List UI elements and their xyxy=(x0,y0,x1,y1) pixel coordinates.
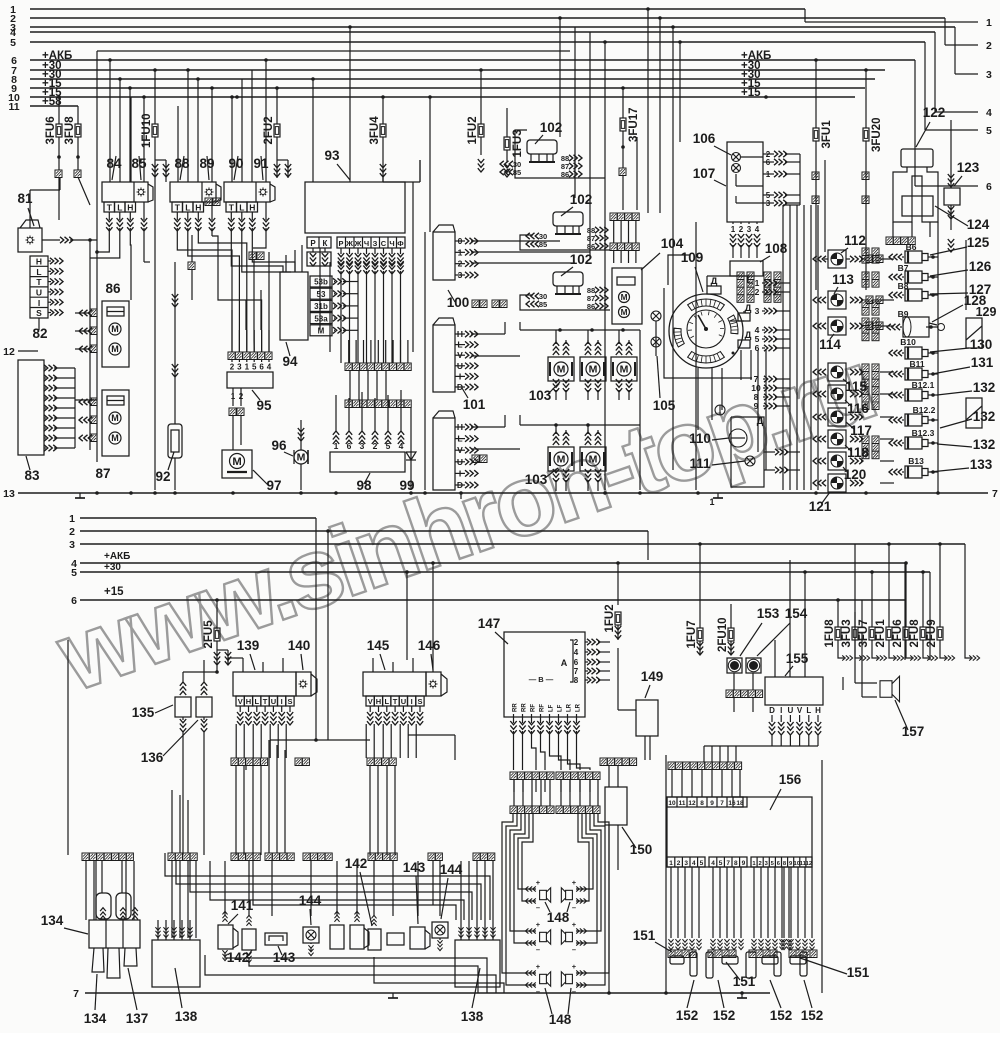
connector below 3FU17 xyxy=(619,168,626,176)
connector row below 122 xyxy=(886,237,893,245)
switch B13 xyxy=(905,466,922,478)
speaker 148 right xyxy=(561,888,572,902)
svg-text:53: 53 xyxy=(317,290,326,299)
fan motor 103 xyxy=(580,447,606,471)
svg-text:I: I xyxy=(281,697,283,706)
fuse 3FU8 xyxy=(75,124,81,137)
svg-text:152: 152 xyxy=(676,1008,699,1023)
connector pairs x476 group xyxy=(472,300,479,308)
svg-text:2FU5: 2FU5 xyxy=(203,620,215,649)
wires 123 xyxy=(950,120,952,188)
svg-text:6: 6 xyxy=(986,181,992,193)
wire trunk x97 xyxy=(96,51,98,462)
relay 142a xyxy=(242,929,256,950)
svg-text:H: H xyxy=(246,697,251,706)
fuse 2FU2 xyxy=(274,124,280,137)
connector strip above 95 xyxy=(228,352,235,360)
wires gauge to relays xyxy=(789,282,791,284)
electronic unit 93 box xyxy=(305,182,405,233)
connector block 83 xyxy=(18,360,44,455)
svg-text:–: – xyxy=(536,987,540,996)
ignition plug prongs above 134 xyxy=(96,893,111,919)
wires 93 strip down to middle strip xyxy=(340,271,342,363)
svg-text:96: 96 xyxy=(271,438,287,453)
svg-text:2: 2 xyxy=(230,363,235,372)
svg-text:S: S xyxy=(417,697,422,706)
svg-text:+15: +15 xyxy=(741,87,761,99)
wire +AKB feeder y51 xyxy=(97,50,570,52)
wire drop x590 xyxy=(589,32,591,247)
switch B8 xyxy=(905,289,922,301)
svg-text:4: 4 xyxy=(711,860,715,867)
ground bottom xyxy=(737,993,747,998)
bus wire 2 top xyxy=(30,17,945,19)
svg-text:M: M xyxy=(111,324,119,334)
svg-text:125: 125 xyxy=(967,235,990,250)
wires above 98 xyxy=(335,404,337,428)
wires below 145 xyxy=(365,724,367,758)
svg-text:95: 95 xyxy=(256,398,272,413)
svg-text:105: 105 xyxy=(653,398,676,413)
relay 117 xyxy=(828,408,846,426)
svg-text:1: 1 xyxy=(752,861,756,867)
svg-text:L: L xyxy=(36,267,41,277)
dots bottom xyxy=(664,991,668,995)
fuse 1FU7 xyxy=(697,628,703,641)
svg-text:T: T xyxy=(263,697,268,706)
svg-text:–: – xyxy=(572,987,576,996)
verticals below strips xyxy=(757,350,759,452)
svg-text:2FU1: 2FU1 xyxy=(875,619,887,648)
gauge wires xyxy=(706,276,708,286)
watermark www.sinhron-top.ru xyxy=(44,329,886,713)
relay 116 xyxy=(828,385,846,403)
svg-text:130: 130 xyxy=(970,337,993,352)
connector strips right of relays xyxy=(862,364,869,372)
svg-text:3FU6: 3FU6 xyxy=(45,116,57,144)
speaker 148 right xyxy=(561,972,572,986)
svg-text:+: + xyxy=(572,962,577,971)
bottom bus 4 AKB xyxy=(80,562,905,564)
gauge tick arc right xyxy=(728,315,738,334)
svg-text:3FU8: 3FU8 xyxy=(64,116,76,145)
svg-text:152: 152 xyxy=(770,1008,793,1023)
gauge tick arc bottom xyxy=(688,352,725,364)
svg-text:Ч: Ч xyxy=(389,239,394,248)
lamp in 106 b xyxy=(732,164,741,173)
svg-text:2: 2 xyxy=(69,526,75,538)
svg-text:B6: B6 xyxy=(906,242,917,252)
svg-text:+: + xyxy=(536,878,541,887)
svg-text:M: M xyxy=(111,413,119,423)
svg-text:L: L xyxy=(239,203,244,213)
svg-text:H: H xyxy=(36,257,42,267)
trunk x460 bottom xyxy=(460,493,462,499)
svg-text:V: V xyxy=(368,697,373,706)
svg-text:+: + xyxy=(572,878,577,887)
connector strip below 139 xyxy=(231,758,238,766)
connector 82 xyxy=(30,256,48,318)
svg-text:1FU2: 1FU2 xyxy=(604,604,616,632)
junction dots on buses xyxy=(153,68,157,72)
svg-text:С: С xyxy=(381,239,387,248)
main trunk x938 xyxy=(937,222,939,493)
svg-text:134: 134 xyxy=(84,1011,107,1026)
block 83 pin wires xyxy=(44,365,57,371)
fuse 1FU2 top xyxy=(478,124,484,137)
relay 114 xyxy=(828,317,846,335)
gauge tick arc left xyxy=(674,328,684,347)
flasher 137b xyxy=(330,925,344,949)
wires below strip 139 xyxy=(235,766,237,855)
relay 90 pin wires xyxy=(230,212,232,220)
svg-text:–: – xyxy=(572,903,576,912)
svg-text:B13: B13 xyxy=(908,456,924,466)
lamp in 106 xyxy=(732,153,741,162)
bottom bus line 2nd section xyxy=(85,992,770,994)
svg-text:99: 99 xyxy=(399,478,414,493)
wire drop x605 xyxy=(604,42,606,490)
svg-text:31b: 31b xyxy=(314,302,328,311)
left connector strips of B switches xyxy=(862,248,869,256)
connector 108 box xyxy=(730,261,763,276)
svg-text:82: 82 xyxy=(32,326,47,341)
wire x965 down xyxy=(964,560,966,652)
ignition coil 102 xyxy=(553,272,583,286)
lamp 111 xyxy=(745,456,755,466)
relay 120 xyxy=(828,452,846,470)
svg-text:1FU10: 1FU10 xyxy=(141,113,153,148)
svg-text:+: + xyxy=(572,920,577,929)
svg-text:L: L xyxy=(806,706,811,715)
wires below 147 staircase xyxy=(513,731,515,770)
motor unit 86 box xyxy=(102,301,129,367)
svg-text:4: 4 xyxy=(755,225,760,234)
power bus +30 y79 xyxy=(30,78,875,80)
svg-text:1FU2: 1FU2 xyxy=(467,116,479,144)
relay 90/91 box xyxy=(224,182,270,202)
wires left of 86/87 xyxy=(89,305,91,450)
svg-text:152: 152 xyxy=(801,1008,824,1023)
fuse 2FU8 xyxy=(920,627,926,640)
resistor 129a xyxy=(966,318,982,348)
relay 121 xyxy=(828,474,846,492)
svg-text:H: H xyxy=(249,203,255,213)
svg-text:154: 154 xyxy=(785,606,808,621)
unit 145 letter pins xyxy=(366,696,374,706)
fan motor 103 xyxy=(580,357,606,381)
wires 155 down to 156 xyxy=(771,734,773,746)
fan motor 103 xyxy=(548,357,574,381)
svg-text:H: H xyxy=(376,697,381,706)
svg-text:147: 147 xyxy=(478,616,501,631)
wires from 93 to buses xyxy=(312,79,314,182)
fuse 2FU5 xyxy=(214,628,220,641)
svg-text:B12.1: B12.1 xyxy=(912,380,935,390)
svg-text:10: 10 xyxy=(668,800,676,807)
wires below 1FU10 xyxy=(155,159,166,161)
svg-text:142: 142 xyxy=(345,856,368,871)
svg-text:L: L xyxy=(385,697,390,706)
box around 110/111 xyxy=(731,417,764,487)
instrument cluster 109 xyxy=(669,294,743,368)
fuse 3FU4 xyxy=(380,124,386,137)
relay 112 xyxy=(828,250,846,268)
speaker 148 right xyxy=(561,930,572,944)
connector rows bottom left xyxy=(82,853,89,861)
svg-text:146: 146 xyxy=(418,638,441,653)
svg-text:152: 152 xyxy=(713,1008,736,1023)
svg-text:LR: LR xyxy=(567,703,573,712)
svg-text:–: – xyxy=(536,903,540,912)
switch B6 xyxy=(905,251,922,263)
svg-text:7: 7 xyxy=(992,488,998,500)
motor unit 97 xyxy=(222,450,252,478)
wires 110/111 right xyxy=(764,451,775,453)
unit 145 top wires xyxy=(372,658,374,672)
svg-text:2FU2: 2FU2 xyxy=(263,116,275,144)
wires from 100 xyxy=(471,240,560,242)
svg-text:M: M xyxy=(621,308,628,317)
feeder wires row1 xyxy=(520,329,640,331)
svg-text:3FU17: 3FU17 xyxy=(628,107,640,142)
svg-text:113: 113 xyxy=(832,272,854,287)
svg-text:138: 138 xyxy=(461,1009,484,1024)
power bus +15 y88 xyxy=(30,87,865,89)
fuse 1FU3 xyxy=(504,137,510,150)
svg-text:151: 151 xyxy=(633,928,656,943)
svg-text:Ч: Ч xyxy=(364,239,369,248)
unit 156 output wires xyxy=(670,867,672,938)
svg-text:1FU3: 1FU3 xyxy=(512,129,524,157)
sensor 153 xyxy=(727,658,742,673)
svg-text:85: 85 xyxy=(539,240,547,249)
svg-text:RR: RR xyxy=(522,703,528,712)
ignition coil 102 xyxy=(553,212,583,226)
connector pair between 85 and 88 xyxy=(205,198,212,206)
svg-text:U: U xyxy=(36,288,42,298)
switch 81 xyxy=(18,228,42,252)
svg-text:136: 136 xyxy=(141,750,164,765)
wires from 101 xyxy=(471,333,505,335)
svg-text:135: 135 xyxy=(132,705,155,720)
switch B12.2 xyxy=(905,414,922,426)
svg-text:2FU6: 2FU6 xyxy=(892,619,904,647)
gauge small dot xyxy=(732,352,735,355)
switch B9 xyxy=(903,317,929,337)
fuse 2FU10 xyxy=(728,628,734,641)
power bus +15 y97 xyxy=(30,96,855,98)
ground symbol left xyxy=(75,493,85,498)
connector below 3FU6 xyxy=(55,170,62,178)
relay 115 xyxy=(828,363,846,381)
svg-text:3FU4: 3FU4 xyxy=(369,116,381,145)
unit 147 B pins xyxy=(513,714,515,723)
trunk x425 xyxy=(424,232,426,490)
svg-text:156: 156 xyxy=(779,772,802,787)
speaker 148 left xyxy=(540,972,551,986)
fuse 1FU2 bottom xyxy=(615,612,621,625)
wire drop x560 xyxy=(559,18,561,137)
fuse 1FU8 xyxy=(835,627,841,640)
wires below relay 90 xyxy=(231,228,283,272)
connector pairs x472 group2 xyxy=(472,455,479,463)
svg-text:104: 104 xyxy=(661,236,684,251)
svg-text:2FU9: 2FU9 xyxy=(926,619,938,647)
bottom bus 3 xyxy=(80,543,965,545)
switch B11 xyxy=(905,368,922,380)
svg-text:H: H xyxy=(127,203,133,213)
svg-text:1: 1 xyxy=(986,17,992,29)
wire 96 vertical xyxy=(300,420,302,450)
bulb symbol xyxy=(715,405,725,415)
wires 157 xyxy=(842,677,844,690)
resistor 129b xyxy=(966,398,982,428)
svg-text:2FU10: 2FU10 xyxy=(717,617,729,652)
power bus +30 y70 xyxy=(30,69,885,71)
svg-text:Р: Р xyxy=(310,239,316,248)
svg-text:131: 131 xyxy=(971,355,994,370)
svg-text:5: 5 xyxy=(986,125,992,137)
svg-text:I: I xyxy=(780,706,782,715)
speaker plugs 151/152 xyxy=(668,950,675,958)
svg-text:V: V xyxy=(238,697,243,706)
fuse 3FU17 xyxy=(620,118,626,131)
svg-text:1: 1 xyxy=(731,225,736,234)
control unit 147 box xyxy=(504,632,585,717)
svg-text:110: 110 xyxy=(689,431,711,446)
misc long verticals right xyxy=(679,42,681,142)
switch 143c xyxy=(410,927,425,949)
bottom bus drops xyxy=(432,563,434,672)
wires below 153/154 xyxy=(733,673,735,690)
svg-text:B12.2: B12.2 xyxy=(913,405,936,415)
svg-text:123: 123 xyxy=(957,160,980,175)
wires above middle strips xyxy=(348,340,350,363)
wires 104 to rows xyxy=(613,221,615,243)
unit 139 letter pins xyxy=(236,696,244,706)
svg-text:6: 6 xyxy=(755,343,760,353)
bottom routing horizontals upper xyxy=(165,853,490,920)
svg-text:T: T xyxy=(393,697,398,706)
diode 99 xyxy=(410,408,412,490)
fan motor 103 xyxy=(548,447,574,471)
switch unit 145/146 xyxy=(363,672,426,696)
svg-text:1: 1 xyxy=(709,497,714,507)
svg-text:LF: LF xyxy=(558,704,564,712)
unit 93 terminals PK xyxy=(307,237,331,248)
fuse 3FU7 xyxy=(869,627,875,640)
radio unit 155 box xyxy=(765,677,823,705)
svg-text:86: 86 xyxy=(105,281,121,296)
svg-text:B7: B7 xyxy=(898,263,909,273)
svg-text:3FU7: 3FU7 xyxy=(858,619,870,647)
wires above 94 xyxy=(285,255,287,272)
wires below strip 145 xyxy=(369,766,371,855)
svg-text:8: 8 xyxy=(574,676,579,685)
motor unit 87 side connectors xyxy=(90,398,97,406)
svg-text:1: 1 xyxy=(69,513,75,525)
svg-text:B8: B8 xyxy=(898,281,909,291)
svg-text:3: 3 xyxy=(986,69,992,81)
svg-text:S: S xyxy=(287,697,292,706)
svg-text:97: 97 xyxy=(266,478,281,493)
svg-text:6: 6 xyxy=(259,363,264,372)
lamp unit 138 right xyxy=(455,940,500,987)
svg-text:103: 103 xyxy=(529,388,552,403)
svg-text:+15: +15 xyxy=(104,586,124,598)
switch unit 106/107 box xyxy=(727,142,763,222)
svg-text:M: M xyxy=(557,364,566,376)
svg-text:87: 87 xyxy=(95,466,110,481)
relay 88/89 box xyxy=(170,182,216,202)
svg-text:Д: Д xyxy=(745,303,752,314)
relay 84 pins TLH xyxy=(104,202,115,212)
switch 144a xyxy=(303,927,319,943)
svg-text:5: 5 xyxy=(10,37,16,49)
flasher 141b xyxy=(350,925,364,949)
fuse 3FU6 xyxy=(56,124,62,137)
verticals row to components xyxy=(224,861,226,916)
switch B12.3 xyxy=(905,437,922,449)
svg-text:5: 5 xyxy=(71,567,77,579)
svg-text:+: + xyxy=(536,962,541,971)
motor unit 86 side connectors xyxy=(90,309,97,317)
power bus +58 y106 xyxy=(30,105,78,107)
svg-text:Ж: Ж xyxy=(345,239,353,248)
svg-text:M: M xyxy=(318,327,325,336)
fuse 1FU10 xyxy=(152,124,158,137)
switch 144b xyxy=(432,922,448,938)
svg-text:3: 3 xyxy=(747,225,752,234)
svg-text:109: 109 xyxy=(681,250,704,265)
svg-text:4: 4 xyxy=(267,363,272,372)
connector rows below 147 xyxy=(510,772,517,780)
extra row feeds xyxy=(268,740,270,853)
svg-text:Д: Д xyxy=(745,330,752,341)
unit 156 top terminals xyxy=(667,797,743,807)
svg-text:85: 85 xyxy=(539,300,547,309)
horn relay 122 xyxy=(901,149,933,167)
svg-text:B9: B9 xyxy=(898,309,909,319)
svg-text:124: 124 xyxy=(967,217,990,232)
102 surrounding wires xyxy=(515,130,605,178)
wires 95 to 97 xyxy=(232,430,234,450)
svg-text:13: 13 xyxy=(3,488,15,500)
clock 110 xyxy=(729,429,747,447)
connector pair below 95 xyxy=(229,408,236,416)
svg-text:1FU8: 1FU8 xyxy=(824,619,836,648)
sensor 154 xyxy=(746,658,761,673)
svg-text:16: 16 xyxy=(728,800,736,807)
svg-text:1: 1 xyxy=(669,860,673,867)
headlight unit 134 xyxy=(89,920,140,948)
connector pair right of 91 xyxy=(249,252,256,260)
trunk x966 xyxy=(965,240,967,310)
svg-text:L: L xyxy=(185,203,190,213)
svg-text:L: L xyxy=(117,203,122,213)
connector strip above 150 xyxy=(600,758,607,766)
svg-text:107: 107 xyxy=(693,166,716,181)
unit 93 terminal wires xyxy=(307,252,331,266)
svg-text:7: 7 xyxy=(73,988,79,1000)
wires above 95 strip xyxy=(231,330,233,352)
relay 135 boxes xyxy=(175,697,191,717)
svg-text:M: M xyxy=(111,433,119,443)
svg-text:145: 145 xyxy=(367,638,390,653)
svg-text:106: 106 xyxy=(693,131,716,146)
svg-text:U: U xyxy=(401,697,406,706)
